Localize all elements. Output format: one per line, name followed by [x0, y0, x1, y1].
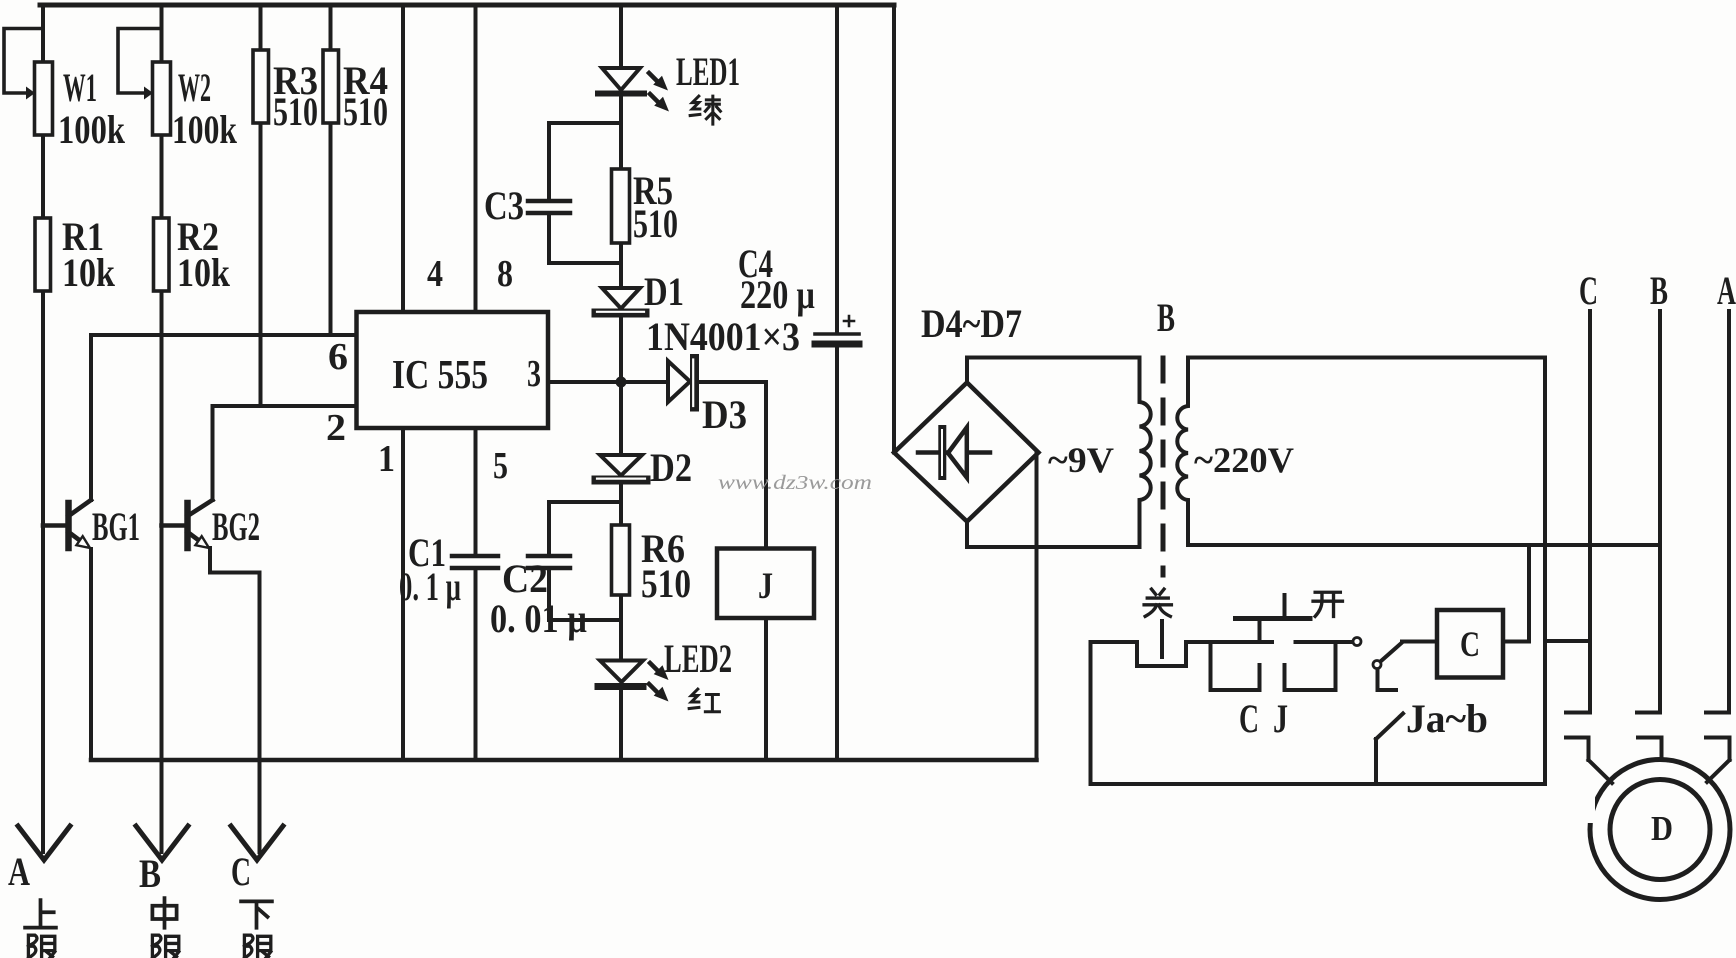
svg-text:D2: D2 [650, 445, 692, 490]
label 中限 (middle limit) [152, 898, 178, 958]
svg-text:A: A [8, 849, 30, 894]
wire link riser to probe line C [1545, 639, 1590, 643]
contact J (relay contact) [1285, 642, 1336, 690]
op-amp/timer IC 555 U1 [357, 312, 549, 428]
resistor R4 [323, 5, 339, 335]
svg-text:C: C [1579, 268, 1598, 313]
svg-text:8: 8 [497, 253, 513, 295]
wire LED column (top rail down to bottom rail) [619, 5, 623, 760]
wire top rail drop to bridge [892, 5, 896, 453]
mains probe line C [1566, 311, 1590, 713]
capacitor C3 (with loop around R5) [528, 123, 621, 263]
transistor BG2 [162, 500, 260, 852]
label 开 (on) [1313, 592, 1342, 616]
wire coil C to 220V rail [1503, 545, 1529, 642]
wire J to bottom rail [764, 618, 768, 760]
svg-text:D1: D1 [644, 269, 684, 314]
transformer secondary winding ~220V [1177, 358, 1188, 546]
svg-text:100k: 100k [172, 107, 238, 152]
wire pin2 net (BG2 collector to IC pin 2) [213, 406, 357, 500]
resistor R6 [612, 525, 630, 595]
transformer core [1161, 358, 1166, 575]
motor lead A [1706, 738, 1730, 783]
svg-text:W2: W2 [178, 65, 211, 110]
pin 1 wire [401, 428, 405, 760]
wire pin6 net (BG1 collector to IC pin 6) [91, 335, 357, 500]
svg-text:510: 510 [641, 561, 691, 606]
switch circuit left drop [1089, 642, 1093, 784]
svg-text:4: 4 [427, 253, 443, 295]
node pin3/D junction [616, 377, 627, 388]
wire column B (W2/R2 branch down to probe B) [160, 5, 164, 852]
svg-text:W1: W1 [63, 65, 97, 110]
pin 4 wire [401, 5, 405, 312]
svg-text:~9V: ~9V [1048, 440, 1114, 480]
svg-text:B: B [139, 851, 161, 896]
LED LED1 [598, 68, 669, 112]
svg-text:C: C [1460, 624, 1480, 664]
svg-text:510: 510 [633, 201, 678, 246]
diode D3 [668, 359, 695, 408]
switch Ja~b changeover contacts [1353, 638, 1403, 785]
LED LED2 [598, 661, 669, 702]
label 下限 (lower limit) [241, 901, 272, 958]
label 绿 (green) [690, 96, 720, 124]
svg-text:10k: 10k [177, 250, 231, 295]
svg-text:1N4001×3: 1N4001×3 [646, 314, 800, 359]
svg-text:3: 3 [527, 353, 541, 395]
wire top supply rail [40, 3, 894, 8]
motor D [1584, 760, 1730, 900]
label 红 (red) [689, 689, 719, 712]
switch circuit bottom rail [1091, 782, 1546, 786]
transistor BG1 [43, 500, 91, 760]
svg-text:6: 6 [328, 336, 348, 378]
svg-text:J: J [758, 566, 773, 607]
svg-text:Ja~b: Ja~b [1406, 696, 1488, 741]
svg-text:J: J [1273, 696, 1288, 741]
wire column A (W1/R1 branch down to probe A) [41, 5, 45, 852]
contactor coil C [1437, 610, 1503, 678]
svg-text:510: 510 [273, 89, 318, 134]
wire 220V loop top [1188, 356, 1545, 360]
wire pin 3 output net [548, 382, 766, 549]
svg-text:2: 2 [326, 407, 346, 449]
svg-text:0. 1 µ: 0. 1 µ [399, 564, 461, 609]
pushbutton 开 (start, NO) [1236, 595, 1311, 642]
resistor R1 [35, 218, 51, 291]
wire 220V bottom to probe line B [1188, 543, 1660, 547]
svg-text:IC 555: IC 555 [392, 351, 488, 397]
svg-text:~220V: ~220V [1194, 440, 1294, 480]
svg-text:5: 5 [493, 445, 508, 487]
diode D1 [596, 288, 645, 313]
svg-text:C: C [1239, 696, 1259, 741]
transformer primary winding ~9V [1140, 358, 1151, 548]
pin 8 wire [474, 5, 478, 312]
svg-text:LED1: LED1 [676, 49, 740, 94]
wire bridge DC- to bottom rail [1035, 453, 1039, 761]
label 关 (off) [1144, 589, 1171, 616]
resistor R5 [612, 169, 630, 243]
motor lead B [1638, 738, 1662, 761]
bridge rectifier D4~D7 [894, 383, 1039, 522]
diode D2 [596, 455, 646, 480]
potentiometer W1 [4, 29, 53, 136]
svg-text:510: 510 [343, 89, 388, 134]
svg-text:B: B [1650, 268, 1668, 313]
motor lead C [1566, 738, 1612, 784]
wire bottom common rail [91, 758, 1037, 763]
capacitor C4 electrolytic [815, 5, 859, 760]
svg-text:D3: D3 [702, 392, 747, 437]
pin 5 wire [474, 428, 478, 760]
resistor R2 [154, 218, 170, 291]
svg-text:C3: C3 [484, 183, 524, 228]
svg-text:10k: 10k [62, 250, 116, 295]
svg-text:1: 1 [378, 438, 395, 480]
label 上限 (upper limit) [25, 900, 56, 958]
wire to Ja-b switch [1296, 640, 1353, 644]
svg-text:C: C [231, 849, 251, 894]
relay coil J [717, 549, 814, 619]
wire bridge bottom to transformer primary [967, 522, 1140, 548]
probe arrow B [136, 826, 188, 860]
contact C (holding contact) [1211, 642, 1260, 690]
svg-text:D4~D7: D4~D7 [921, 301, 1022, 346]
wire bridge top to transformer primary [967, 358, 1140, 383]
svg-text:BG2: BG2 [212, 504, 260, 549]
svg-text:A: A [1717, 268, 1736, 313]
svg-text:100k: 100k [58, 107, 126, 152]
mains probe line B [1637, 311, 1660, 713]
probe arrow C [231, 826, 283, 860]
resistor R3 [253, 5, 269, 406]
svg-text:BG1: BG1 [92, 504, 140, 549]
wire Ja-b to contactor coil [1402, 640, 1437, 644]
svg-text:0. 01 µ: 0. 01 µ [490, 596, 587, 641]
svg-text:www.dz3w.com: www.dz3w.com [718, 472, 872, 494]
pushbutton 关 (stop, NC) [1091, 621, 1273, 666]
capacitor C2 (with loop around R6) [528, 502, 621, 620]
capacitor C1 [452, 556, 498, 568]
probe arrow A [18, 826, 70, 860]
mains probe line A [1706, 311, 1729, 713]
potentiometer W2 [118, 29, 171, 136]
wire right riser (220V side down to switch rail) [1543, 358, 1547, 785]
svg-text:LED2: LED2 [664, 636, 732, 681]
svg-text:D: D [1651, 809, 1673, 848]
svg-text:B: B [1157, 295, 1175, 340]
svg-text:220 µ: 220 µ [740, 272, 815, 317]
svg-text:C2: C2 [502, 556, 548, 601]
